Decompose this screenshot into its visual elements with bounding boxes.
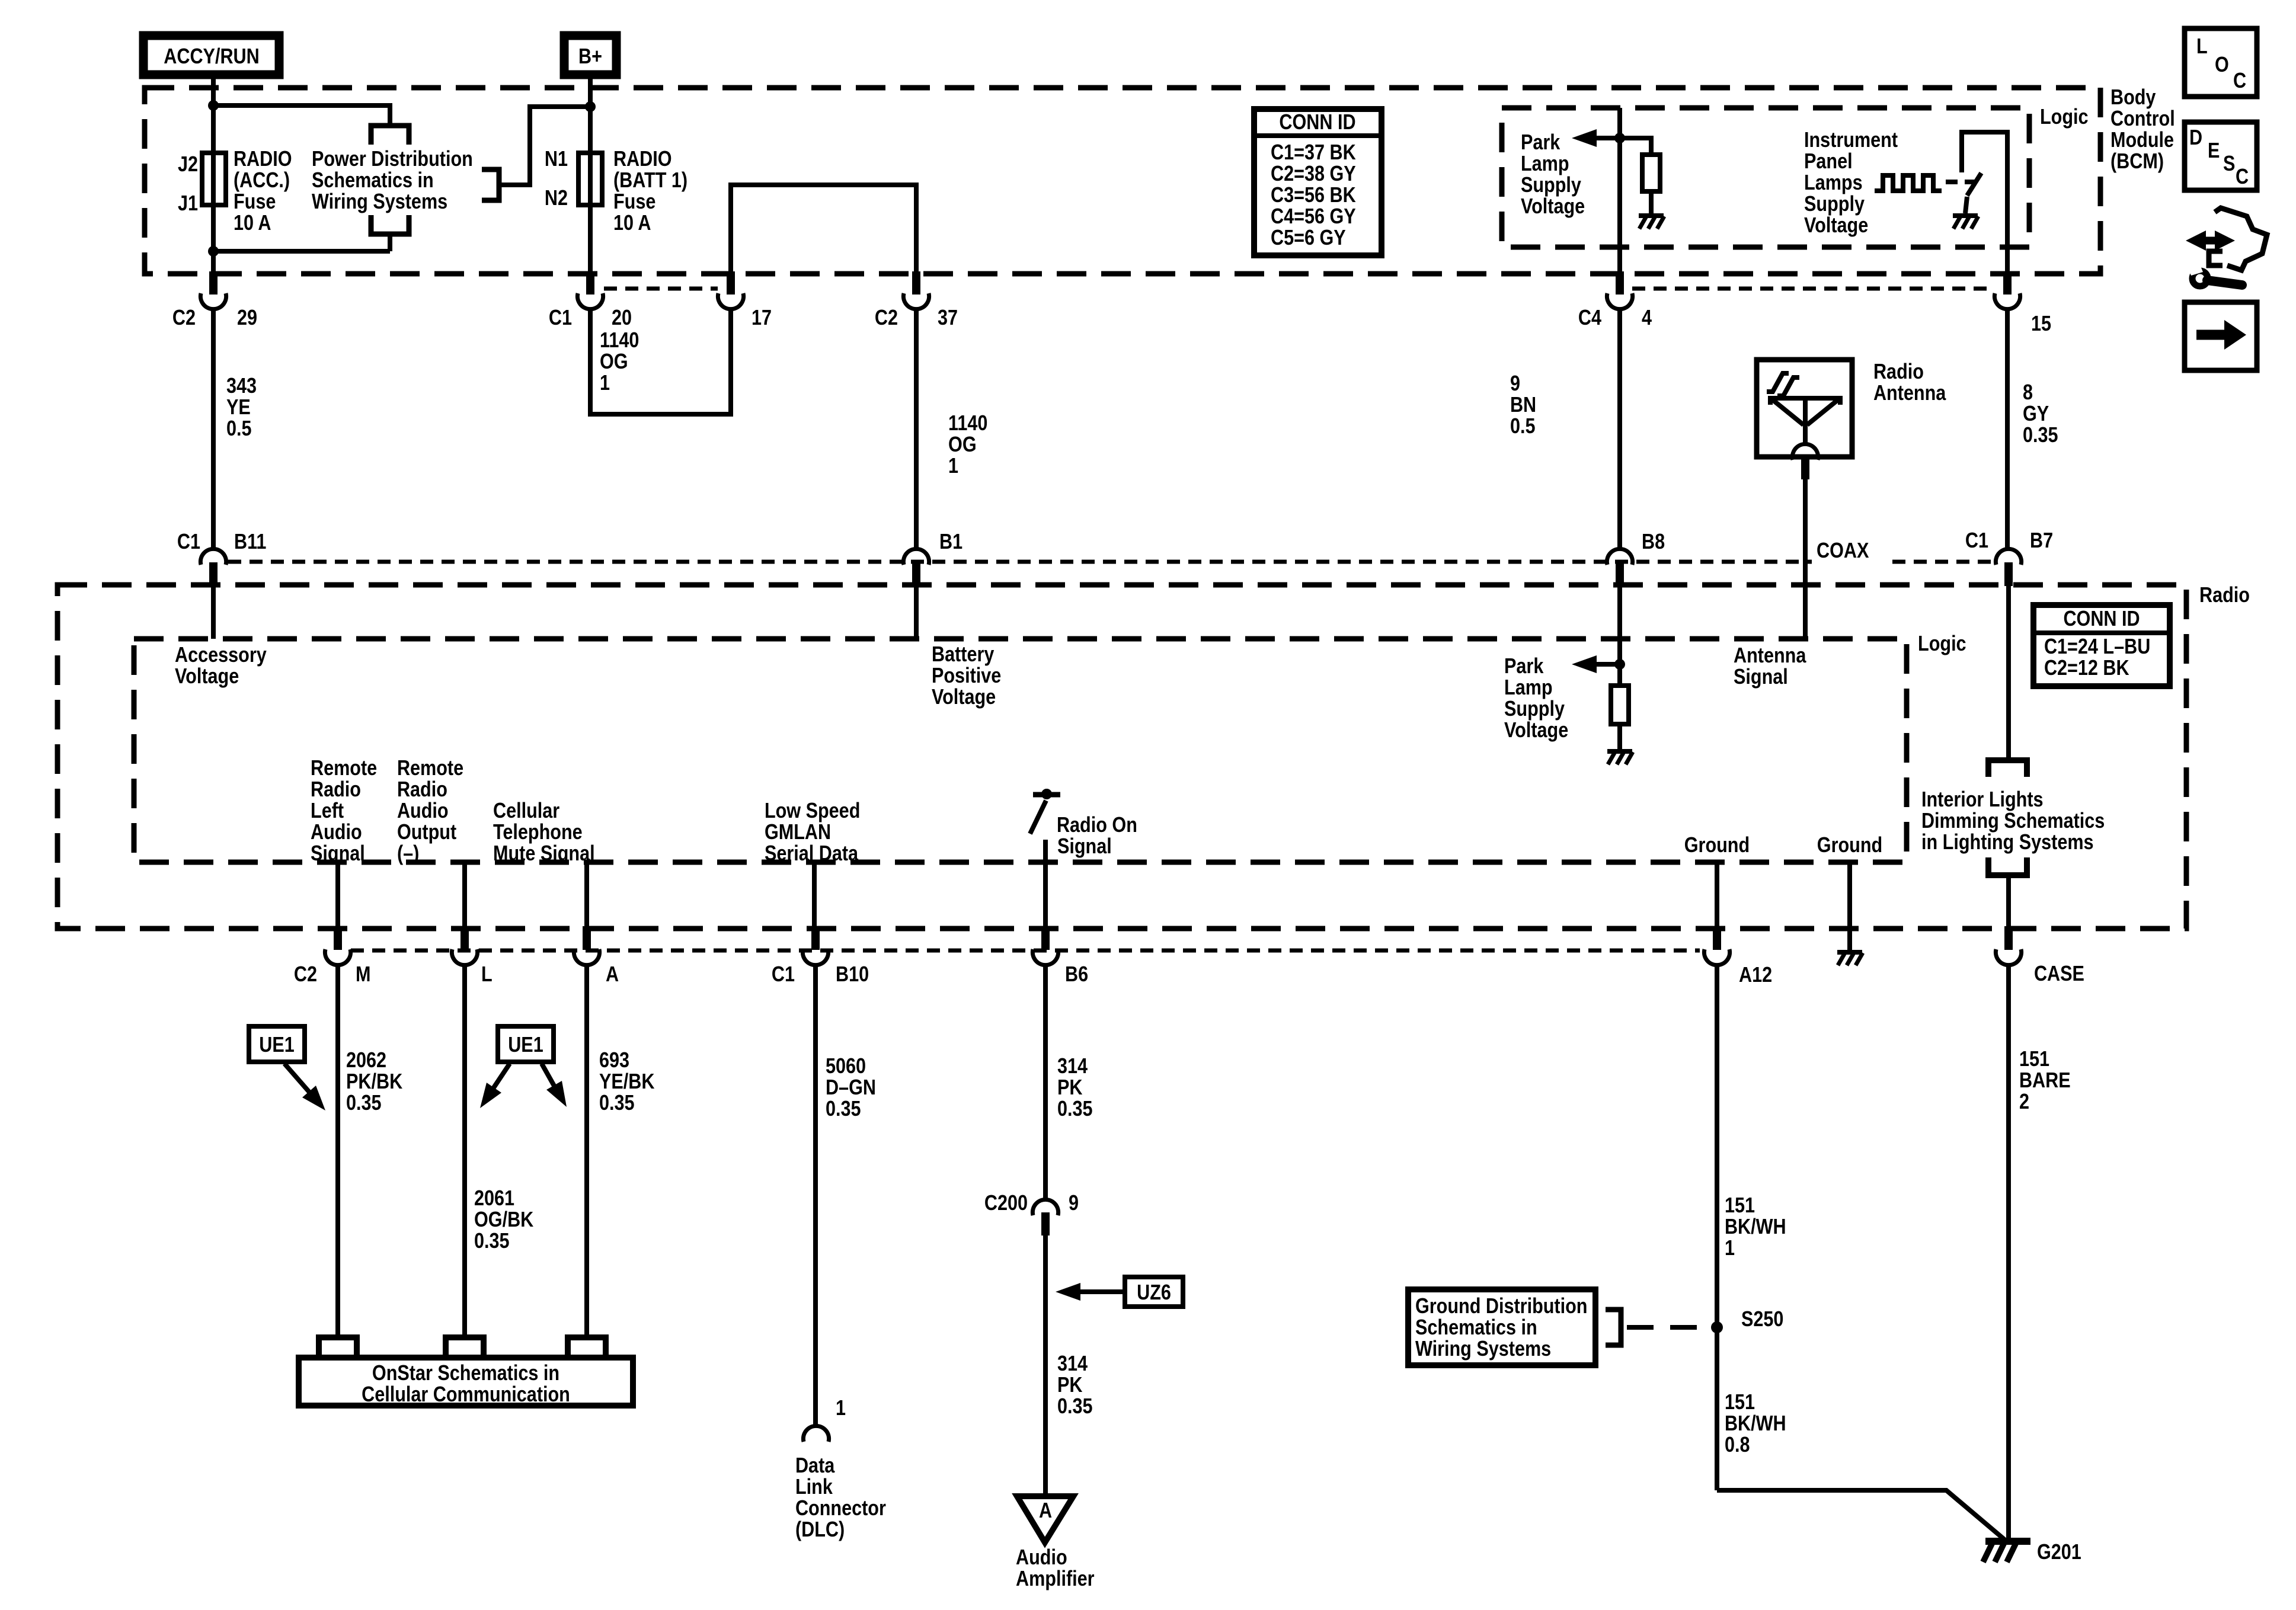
svg-text:C1=37 BK: C1=37 BK	[1271, 141, 1356, 165]
svg-text:9: 9	[1510, 372, 1520, 396]
antenna signal waves glyph	[1767, 373, 1789, 392]
svg-text:C1: C1	[772, 963, 795, 987]
label Low Speed GMLAN Serial Data	[765, 799, 860, 823]
svg-text:B10: B10	[836, 963, 869, 987]
svg-text:0.8: 0.8	[1725, 1433, 1750, 1457]
arrow UE1 to wire A	[542, 1064, 561, 1097]
ground (BCM park lamp resistor)	[1639, 213, 1664, 218]
arrow to park lamp (radio)	[1597, 662, 1620, 667]
label Audio Amplifier	[1016, 1546, 1067, 1570]
svg-text:20: 20	[612, 306, 632, 330]
svg-text:Radio: Radio	[1873, 360, 1924, 384]
wire to CASE connector	[2006, 875, 2011, 927]
label Accessory Voltage	[175, 644, 267, 667]
wire remote radio audio output	[462, 862, 467, 927]
wire into radio accessory voltage	[211, 586, 216, 639]
wire 314 PK 0.35 lower	[1043, 1235, 1048, 1495]
svg-text:0.35: 0.35	[1057, 1097, 1093, 1121]
svg-text:Schematics in: Schematics in	[1415, 1316, 1537, 1340]
svg-text:L: L	[481, 963, 493, 987]
svg-text:Wiring Systems: Wiring Systems	[1415, 1337, 1551, 1361]
svg-text:15: 15	[2031, 312, 2051, 336]
svg-text:CONN ID: CONN ID	[1279, 111, 1355, 135]
arrow UE1 to wire L	[486, 1064, 510, 1099]
wire B7 to interior lights reference	[2006, 586, 2011, 760]
svg-text:9: 9	[1069, 1192, 1079, 1215]
svg-text:Logic: Logic	[1918, 632, 1966, 656]
fuse RADIO (BATT 1) 10A	[578, 153, 602, 205]
svg-text:1: 1	[600, 372, 610, 395]
label Body Control Module (BCM)	[2110, 86, 2156, 110]
svg-text:OG: OG	[600, 350, 628, 374]
svg-text:Park: Park	[1521, 131, 1560, 155]
label Park Lamp Supply Voltage (Radio)	[1504, 655, 1544, 678]
connector C2 pin M	[334, 926, 342, 950]
svg-text:1: 1	[1725, 1237, 1735, 1260]
svg-text:Signal: Signal	[1734, 665, 1788, 689]
DLC connector half	[803, 1426, 829, 1442]
svg-text:N2: N2	[545, 187, 568, 210]
svg-text:343: 343	[226, 375, 257, 398]
svg-text:L: L	[2196, 35, 2208, 59]
svg-text:C200: C200	[984, 1192, 1028, 1215]
connector row dots C1 20-17	[604, 287, 718, 291]
svg-text:RADIO: RADIO	[234, 148, 292, 171]
svg-text:OG: OG	[948, 433, 977, 457]
svg-text:A: A	[606, 963, 619, 987]
svg-text:Remote: Remote	[397, 757, 463, 780]
wire 9 BN 0.5	[1617, 309, 1622, 549]
ground (radio park lamp resistor)	[1607, 749, 1632, 754]
connector C1 pin B7	[1996, 549, 2021, 565]
svg-text:B7: B7	[2030, 529, 2053, 553]
connector C1 pin 20	[586, 271, 594, 295]
radio on signal switch	[1041, 789, 1052, 799]
svg-text:1: 1	[948, 454, 958, 478]
svg-text:Audio: Audio	[1016, 1546, 1067, 1570]
svg-text:4: 4	[1642, 306, 1652, 330]
svg-text:UZ6: UZ6	[1137, 1281, 1171, 1305]
svg-text:C1: C1	[177, 530, 200, 554]
svg-text:N1: N1	[545, 148, 568, 171]
svg-text:Dimming Schematics: Dimming Schematics	[1921, 809, 2105, 833]
svg-text:Radio: Radio	[397, 778, 447, 802]
svg-text:Interior Lights: Interior Lights	[1921, 788, 2044, 812]
connector C4 pin 4	[1616, 271, 1624, 295]
svg-text:Lamp: Lamp	[1504, 676, 1553, 700]
svg-text:C2: C2	[294, 963, 317, 987]
Radio inner Logic dashed box	[134, 639, 1907, 862]
wire 693 YE/BK 0.35	[584, 965, 589, 1337]
svg-text:B6: B6	[1065, 963, 1088, 987]
svg-text:Amplifier: Amplifier	[1016, 1567, 1095, 1591]
svg-text:151: 151	[1725, 1194, 1755, 1218]
label Cellular Telephone Mute Signal	[493, 799, 559, 823]
junction node	[1614, 133, 1625, 143]
junction node	[585, 101, 596, 112]
label N2	[545, 187, 568, 210]
svg-text:1: 1	[836, 1397, 846, 1420]
resistor park lamp (radio)	[1617, 664, 1622, 686]
label Radio Antenna	[1873, 360, 1924, 384]
Radio outer dashed box	[57, 585, 2186, 929]
svg-text:A: A	[1039, 1499, 1052, 1523]
svg-text:Antenna: Antenna	[1873, 382, 1946, 405]
svg-text:Signal: Signal	[1057, 835, 1112, 859]
svg-text:2: 2	[2019, 1090, 2029, 1114]
svg-text:Data: Data	[795, 1454, 835, 1478]
power feed box B+	[564, 36, 616, 75]
dashed link to switch	[1946, 180, 1976, 184]
svg-text:S: S	[2223, 152, 2235, 176]
harness U-loop 20 to 17	[590, 309, 731, 414]
connector pin A	[583, 926, 591, 950]
svg-text:693: 693	[599, 1049, 629, 1073]
off-page bracket left	[482, 169, 499, 200]
svg-text:2061: 2061	[474, 1187, 514, 1211]
BCM inner Logic dashed box	[1502, 108, 2029, 247]
svg-text:Voltage: Voltage	[1804, 214, 1868, 238]
svg-text:10 A: 10 A	[234, 212, 271, 235]
svg-text:Radio: Radio	[2199, 584, 2250, 607]
connector C200 pin 9	[1032, 1199, 1058, 1215]
svg-text:Panel: Panel	[1804, 150, 1853, 174]
wire 2062 PK/BK 0.35	[335, 965, 340, 1337]
label Radio	[2199, 584, 2250, 607]
label Antenna Signal	[1734, 644, 1806, 668]
svg-text:Lamps: Lamps	[1804, 171, 1863, 195]
label Data Link Connector (DLC)	[795, 1454, 835, 1478]
svg-text:2062: 2062	[346, 1049, 386, 1073]
svg-text:(BCM): (BCM)	[2110, 150, 2164, 174]
label RADIO (ACC.) Fuse 10 A	[234, 148, 292, 171]
label Radio On Signal	[1057, 814, 1137, 837]
svg-text:0.35: 0.35	[346, 1092, 382, 1115]
icon DESC box	[2185, 122, 2257, 190]
label RADIO (BATT 1) Fuse 10 A	[613, 148, 672, 171]
wire ground A12	[1715, 862, 1719, 927]
svg-text:UE1: UE1	[508, 1033, 543, 1057]
svg-text:Voltage: Voltage	[175, 665, 239, 689]
svg-text:RADIO: RADIO	[613, 148, 672, 171]
svg-text:29: 29	[237, 306, 257, 330]
svg-text:151: 151	[2019, 1048, 2049, 1071]
svg-text:UE1: UE1	[259, 1033, 295, 1057]
OnStar off-page staple M	[319, 1337, 357, 1358]
off-page bracket bottom	[371, 215, 409, 234]
svg-text:0.35: 0.35	[2023, 424, 2058, 447]
svg-text:Supply: Supply	[1504, 697, 1565, 721]
svg-text:1140: 1140	[948, 412, 987, 436]
svg-text:8: 8	[2023, 381, 2033, 405]
connector pin 17	[727, 271, 735, 295]
wire ground internal	[1847, 862, 1852, 951]
wire B+ feed	[588, 79, 593, 273]
svg-text:B8: B8	[1642, 530, 1665, 554]
wire to power distribution reference	[213, 105, 390, 126]
svg-text:C: C	[2233, 69, 2246, 93]
svg-text:GY: GY	[2023, 402, 2049, 426]
svg-text:Serial Data: Serial Data	[765, 842, 858, 866]
PWM signal waveform	[1875, 175, 1942, 191]
svg-text:O: O	[2215, 53, 2229, 77]
svg-text:0.5: 0.5	[1510, 415, 1536, 438]
wire into radio park lamp	[1617, 586, 1622, 664]
svg-text:Body: Body	[2110, 86, 2156, 110]
svg-text:(BATT 1): (BATT 1)	[613, 169, 687, 193]
wire radio on signal	[1043, 840, 1048, 927]
svg-text:in Lighting Systems: in Lighting Systems	[1921, 831, 2094, 854]
icon wrench and arrows	[2198, 237, 2223, 245]
wire 5060 D-GN 0.35	[813, 965, 818, 1426]
wire 1140 OG 1 to radio	[914, 309, 919, 549]
wire low speed GMLAN	[812, 862, 817, 927]
svg-text:Mute Signal: Mute Signal	[493, 842, 595, 866]
connector pin L	[461, 926, 469, 950]
connector pin CASE	[2004, 926, 2013, 950]
fuse RADIO (ACC.) 10A	[202, 153, 226, 205]
label J2	[178, 153, 198, 177]
svg-text:Output: Output	[397, 821, 456, 844]
wire 151 BK/WH 0.8	[1725, 1391, 1755, 1414]
svg-text:(ACC.): (ACC.)	[234, 169, 290, 193]
ground distribution reference box	[1408, 1289, 1595, 1365]
svg-text:BARE: BARE	[2019, 1069, 2071, 1093]
connector C1 pin B11	[200, 549, 226, 565]
off-page bracket top	[371, 126, 409, 145]
wire 2061 OG/BK 0.35	[462, 965, 467, 1337]
wire return to main	[213, 249, 390, 254]
svg-text:BK/WH: BK/WH	[1725, 1412, 1786, 1436]
svg-text:Audio: Audio	[397, 799, 449, 823]
svg-text:Voltage: Voltage	[932, 686, 996, 709]
label 1140 OG 1	[600, 329, 639, 353]
splice S250	[1711, 1321, 1723, 1333]
wire 151 BARE 2	[2006, 965, 2011, 1541]
wire 8 GY 0.35	[2005, 309, 2010, 549]
OnStar reference box	[299, 1358, 633, 1406]
svg-text:C1: C1	[1965, 529, 1988, 553]
label Park Lamp Supply Voltage (BCM)	[1521, 131, 1560, 155]
svg-text:5060: 5060	[826, 1055, 866, 1078]
svg-text:YE/BK: YE/BK	[599, 1070, 654, 1094]
connector pin B1	[903, 549, 929, 565]
svg-text:C2=38 GY: C2=38 GY	[1271, 162, 1356, 186]
svg-text:Link: Link	[795, 1475, 833, 1499]
svg-text:Ground Distribution: Ground Distribution	[1415, 1295, 1588, 1318]
svg-text:B11: B11	[234, 530, 266, 554]
dimming switch blade	[1967, 173, 1981, 196]
svg-text:Fuse: Fuse	[234, 190, 276, 214]
svg-text:151: 151	[1725, 1391, 1755, 1414]
svg-text:Instrument: Instrument	[1804, 129, 1898, 152]
svg-text:Park: Park	[1504, 655, 1544, 678]
connector pin B8	[1607, 549, 1632, 565]
OnStar off-page staple A	[568, 1337, 606, 1358]
wire 151 BK/WH 1	[1715, 965, 1719, 1490]
off-page bracket bottom (interior lights)	[1988, 857, 2027, 875]
svg-text:S250: S250	[1741, 1308, 1783, 1331]
wire remote radio left audio signal	[335, 862, 340, 927]
svg-text:BK/WH: BK/WH	[1725, 1215, 1786, 1239]
svg-text:314: 314	[1057, 1055, 1088, 1078]
label J1	[178, 192, 198, 216]
audio amplifier symbol	[1017, 1496, 1073, 1542]
UE1 option box 1	[249, 1026, 305, 1062]
connector row dots radio top B11-B7	[228, 560, 1996, 564]
svg-text:Accessory: Accessory	[175, 644, 267, 667]
svg-text:Low Speed: Low Speed	[765, 799, 860, 823]
svg-text:D: D	[2189, 126, 2202, 150]
svg-text:Antenna: Antenna	[1734, 644, 1806, 668]
svg-text:C4=56 GY: C4=56 GY	[1271, 205, 1356, 229]
svg-text:10 A: 10 A	[613, 212, 651, 235]
junction node	[208, 100, 219, 111]
wire to G201	[1717, 1490, 2008, 1542]
connector row dots C4 4-15	[1632, 287, 1994, 291]
svg-text:PK/BK: PK/BK	[346, 1070, 402, 1094]
connector row dots radio bottom M-A12	[351, 949, 1700, 953]
connector C1 pin B10	[811, 926, 820, 950]
svg-text:Voltage: Voltage	[1521, 195, 1585, 219]
svg-text:CASE: CASE	[2034, 962, 2084, 986]
BCM outer dashed box	[145, 88, 2100, 274]
svg-text:Remote: Remote	[311, 757, 377, 780]
bracket to splice	[1606, 1310, 1621, 1345]
label Power Distribution Schematics in Wiring Systems	[312, 148, 473, 171]
svg-text:PK: PK	[1057, 1374, 1082, 1397]
radio antenna box	[1757, 360, 1852, 457]
svg-text:Supply: Supply	[1804, 193, 1865, 216]
svg-text:Battery: Battery	[932, 643, 994, 667]
svg-text:Radio: Radio	[311, 778, 361, 802]
label N1	[545, 148, 568, 171]
svg-text:PK: PK	[1057, 1076, 1082, 1100]
connector C2 pin 29	[209, 271, 218, 295]
svg-text:0.35: 0.35	[1057, 1395, 1093, 1419]
svg-text:17: 17	[752, 306, 772, 330]
svg-text:C1=24 L–BU: C1=24 L–BU	[2044, 635, 2150, 659]
svg-text:C5=6 GY: C5=6 GY	[1271, 226, 1346, 250]
svg-text:C: C	[2236, 165, 2249, 189]
svg-text:CONN ID: CONN ID	[2063, 607, 2140, 631]
svg-text:BN: BN	[1510, 393, 1536, 417]
svg-text:0.35: 0.35	[474, 1230, 510, 1253]
ground G201	[1985, 1538, 2030, 1545]
svg-text:0.35: 0.35	[599, 1092, 635, 1115]
svg-text:C2=12 BK: C2=12 BK	[2044, 657, 2129, 680]
svg-text:Lamp: Lamp	[1521, 152, 1569, 176]
switch contact and wire to pin 15	[1962, 132, 2007, 271]
svg-text:ACCY/RUN: ACCY/RUN	[164, 45, 259, 69]
svg-text:Schematics in: Schematics in	[312, 169, 434, 193]
svg-text:Ground: Ground	[1684, 834, 1750, 857]
svg-text:Cellular: Cellular	[493, 799, 559, 823]
label Remote Radio Left Audio Signal	[311, 757, 377, 780]
svg-text:B1: B1	[939, 530, 962, 554]
svg-text:(–): (–)	[397, 842, 419, 866]
svg-text:J1: J1	[178, 192, 198, 216]
wire 17 to 37 inside BCM	[731, 185, 916, 271]
svg-text:OnStar Schematics in: OnStar Schematics in	[372, 1362, 559, 1385]
svg-text:314: 314	[1057, 1352, 1088, 1376]
svg-text:M: M	[356, 963, 370, 987]
connector C2 pin 37	[912, 271, 920, 295]
svg-text:Control: Control	[2110, 107, 2175, 131]
svg-text:Telephone: Telephone	[493, 821, 583, 844]
svg-text:C3=56 BK: C3=56 BK	[1271, 184, 1356, 207]
wire cellular telephone mute signal	[584, 862, 589, 927]
connector pin B6	[1041, 926, 1050, 950]
svg-text:C1: C1	[549, 306, 572, 330]
ground (radio internal)	[1837, 950, 1862, 955]
ground (dimming switch)	[1953, 213, 1978, 218]
arrow UZ6 to wire	[1079, 1289, 1125, 1294]
svg-text:C4: C4	[1578, 306, 1601, 330]
label Ground (A12)	[1684, 834, 1750, 857]
CONN ID table (radio)	[2033, 605, 2170, 686]
svg-text:Power Distribution: Power Distribution	[312, 148, 473, 171]
wire ACCY/RUN feed	[211, 79, 216, 273]
antenna element	[1770, 398, 1840, 444]
svg-text:Fuse: Fuse	[613, 190, 655, 214]
svg-text:Left: Left	[311, 799, 344, 823]
svg-text:1140: 1140	[600, 329, 639, 353]
svg-text:COAX: COAX	[1817, 539, 1869, 563]
wire into radio battery positive voltage	[914, 586, 919, 639]
svg-text:YE: YE	[226, 396, 251, 420]
antenna coax connector	[1792, 444, 1818, 460]
svg-text:J2: J2	[178, 153, 198, 177]
wire to power distribution reference	[501, 107, 590, 185]
svg-text:Radio On: Radio On	[1057, 814, 1137, 837]
arrow to park lamp	[1597, 136, 1620, 140]
svg-text:Module: Module	[2110, 129, 2174, 152]
label Interior Lights Dimming Schematics in Lighting Systems	[1921, 788, 2044, 812]
svg-text:C2: C2	[875, 306, 898, 330]
svg-text:Connector: Connector	[795, 1497, 886, 1521]
svg-text:D–GN: D–GN	[826, 1076, 876, 1100]
svg-text:C2: C2	[172, 306, 196, 330]
wire park lamp supply	[1617, 108, 1622, 273]
svg-text:0.5: 0.5	[226, 417, 252, 441]
connector pin 15	[2003, 271, 2012, 295]
connector pin A12	[1713, 926, 1721, 950]
svg-text:(DLC): (DLC)	[795, 1518, 845, 1542]
coax wire	[1803, 479, 1808, 639]
svg-text:E: E	[2208, 139, 2220, 163]
svg-text:Logic: Logic	[2040, 105, 2089, 129]
icon arrow box	[2185, 302, 2257, 370]
wire 314 PK 0.35 upper	[1043, 965, 1048, 1199]
svg-text:Supply: Supply	[1521, 174, 1581, 197]
UE1 option box 2	[498, 1026, 554, 1062]
svg-text:37: 37	[938, 306, 958, 330]
svg-text:A12: A12	[1739, 964, 1772, 987]
svg-text:Positive: Positive	[932, 664, 1001, 688]
svg-text:OG/BK: OG/BK	[474, 1208, 533, 1232]
label COAX	[1817, 539, 1869, 563]
svg-text:Ground: Ground	[1817, 834, 1882, 857]
power feed box ACCY/RUN	[143, 36, 279, 75]
label Ground (internal)	[1817, 834, 1882, 857]
off-page bracket top (interior lights)	[1988, 760, 2027, 777]
label Logic (BCM)	[2040, 105, 2089, 129]
svg-text:Cellular Communication: Cellular Communication	[362, 1383, 570, 1407]
wire 343 YE 0.5	[211, 309, 216, 549]
OnStar off-page staple L	[446, 1337, 484, 1358]
UZ6 option box	[1125, 1277, 1183, 1307]
